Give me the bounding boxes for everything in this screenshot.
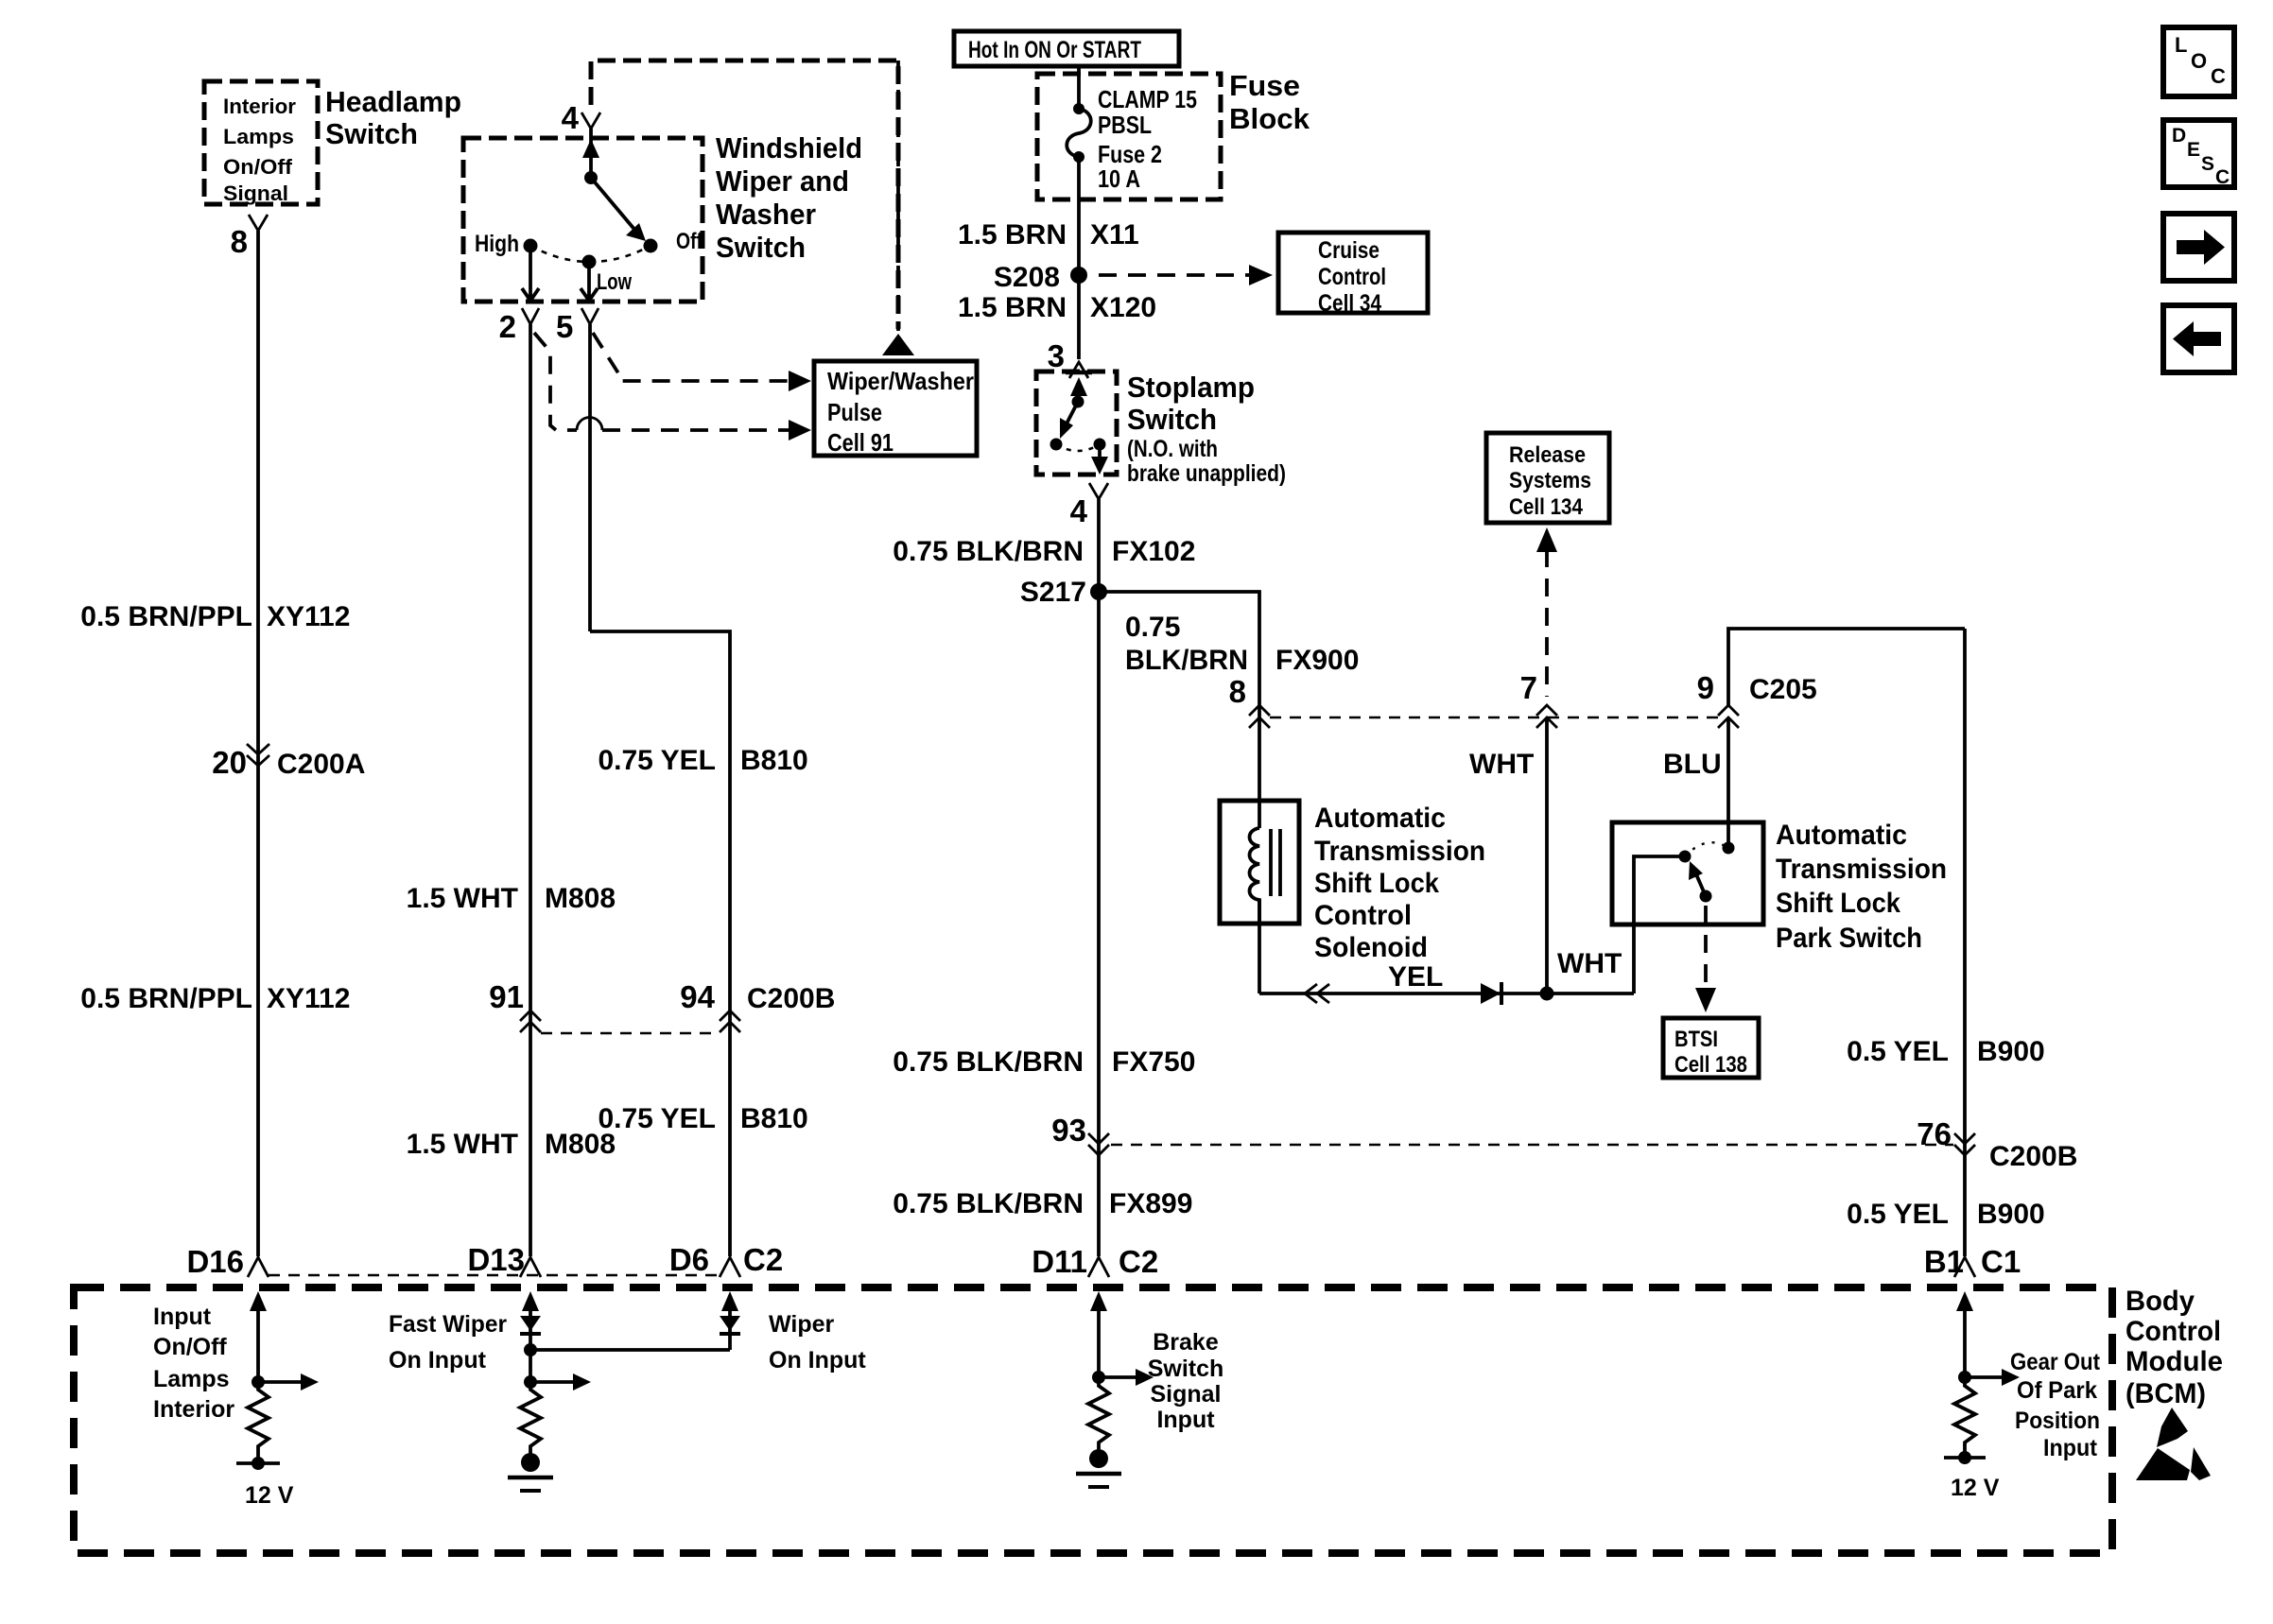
- svg-text:Interior: Interior: [153, 1396, 234, 1423]
- arrowhead to pulse box upper: [789, 371, 811, 391]
- svg-text:Pulse: Pulse: [827, 398, 882, 426]
- svg-text:Wiper: Wiper: [769, 1311, 834, 1338]
- svg-text:1.5 BRN: 1.5 BRN: [958, 292, 1067, 323]
- svg-text:FX750: FX750: [1112, 1046, 1195, 1078]
- svg-text:Shift Lock: Shift Lock: [1776, 888, 1900, 919]
- svg-text:Systems: Systems: [1509, 468, 1591, 493]
- solenoid output wire down from box: [1258, 900, 1261, 993]
- wire from hot feed to fuse: [1077, 65, 1081, 109]
- svg-text:Transmission: Transmission: [1314, 836, 1485, 867]
- svg-text:On Input: On Input: [769, 1347, 866, 1373]
- junction dot wht yel: [1540, 987, 1554, 1001]
- BCM label Brake Switch Signal Input: [1148, 1329, 1224, 1433]
- stoplamp contact right dot: [1094, 439, 1106, 451]
- 12V bar at B1: [1944, 1451, 1986, 1464]
- svg-text:L: L: [2175, 33, 2187, 57]
- svg-text:Park Switch: Park Switch: [1776, 923, 1922, 954]
- park switch dashed travel arc: [1685, 842, 1728, 856]
- svg-text:BTSI: BTSI: [1674, 1027, 1718, 1052]
- arrow down Low wire: [581, 288, 598, 301]
- LOC icon box: [2163, 27, 2234, 96]
- ground symbol at D13: [508, 1453, 553, 1491]
- BTSI cell 138 box: [1663, 1018, 1759, 1078]
- svg-text:Lamps: Lamps: [223, 125, 294, 148]
- svg-text:brake unapplied): brake unapplied): [1127, 460, 1286, 487]
- wire label 0.5 YEL B900 upper: [1847, 1036, 2045, 1067]
- svg-text:Signal: Signal: [223, 181, 288, 205]
- stoplamp input bar: [1066, 371, 1092, 375]
- svg-text:Control: Control: [2126, 1316, 2221, 1347]
- stoplamp arrow up to bar: [1070, 377, 1087, 396]
- pin 5 connector fork: [581, 308, 599, 324]
- svg-text:On Input: On Input: [389, 1347, 487, 1373]
- pin 2 connector fork: [522, 308, 539, 324]
- svg-text:M808: M808: [545, 883, 616, 914]
- svg-text:8: 8: [231, 224, 248, 259]
- wire label 1.5 BRN X120: [958, 292, 1156, 323]
- wire label 0.5 BRN/PPL XY112 (upper): [80, 601, 350, 632]
- resistor at B1: [1954, 1377, 1975, 1456]
- svg-text:D6: D6: [669, 1242, 709, 1277]
- svg-text:(BCM): (BCM): [2126, 1378, 2206, 1409]
- component label Body Control Module BCM: [2126, 1286, 2223, 1409]
- svg-text:0.5 YEL: 0.5 YEL: [1847, 1036, 1949, 1067]
- svg-text:12 V: 12 V: [1951, 1475, 2000, 1501]
- svg-text:Wiper/Washer: Wiper/Washer: [827, 367, 974, 395]
- svg-text:0.5 BRN/PPL: 0.5 BRN/PPL: [80, 601, 252, 632]
- pulse box text Wiper/Washer Pulse Cell 91: [827, 367, 974, 457]
- park switch L wire to WHT drop: [1634, 856, 1685, 993]
- svg-text:Input: Input: [1156, 1407, 1215, 1433]
- dashed ref line 7 to release box: [1545, 549, 1549, 697]
- svg-text:0.75: 0.75: [1125, 612, 1180, 643]
- arrowhead to cruise control: [1249, 265, 1273, 285]
- svg-text:Solenoid: Solenoid: [1314, 932, 1428, 963]
- svg-text:C2: C2: [1119, 1244, 1158, 1279]
- splice S217 dot: [1090, 583, 1107, 600]
- junction dot B1 branch: [1958, 1371, 1971, 1384]
- svg-text:Module: Module: [2126, 1346, 2223, 1377]
- dashed ref from pin 5 to pulse box: [593, 333, 792, 381]
- svg-text:Body: Body: [2126, 1286, 2195, 1317]
- wire B900 column down to BCM B1: [1963, 629, 1967, 1256]
- svg-text:S: S: [2201, 153, 2214, 175]
- component label Fuse Block: [1229, 69, 1310, 135]
- dotted travel arc High-Low-Off: [530, 246, 651, 262]
- yel return wire solenoid to park switch drop: [1259, 992, 1634, 995]
- stoplamp wire to pivot: [1077, 391, 1081, 402]
- ESD sensitive symbol: [2136, 1408, 2211, 1480]
- park switch arm arrowhead: [1689, 861, 1703, 880]
- svg-text:Switch: Switch: [716, 231, 806, 264]
- shift lock control solenoid box: [1220, 801, 1299, 924]
- svg-text:2: 2: [499, 309, 516, 344]
- BCM label Fast Wiper On Input: [389, 1311, 507, 1373]
- svg-text:Signal: Signal: [1150, 1381, 1221, 1408]
- BCM wire at D11: [1097, 1306, 1101, 1377]
- wire label 1.5 WHT M808 lower: [407, 1129, 616, 1160]
- svg-text:O: O: [2191, 49, 2207, 73]
- arrow up on pin 4 wire: [582, 139, 599, 158]
- pin D11 connector fork: [1088, 1257, 1109, 1277]
- svg-text:Cruise: Cruise: [1318, 237, 1379, 264]
- svg-text:94: 94: [680, 979, 715, 1014]
- stoplamp arm arrowhead: [1060, 418, 1073, 439]
- inline connector C205 pin 9: [1697, 670, 1817, 728]
- svg-text:5: 5: [556, 309, 573, 344]
- pin 4 connector fork: [581, 112, 600, 129]
- pin 8 connector fork: [249, 215, 268, 231]
- junction dot D16 branch: [252, 1375, 265, 1389]
- junction dot D13 branch: [524, 1375, 537, 1389]
- svg-text:Fast Wiper: Fast Wiper: [389, 1311, 507, 1338]
- BCM input arrow up at D11: [1090, 1291, 1107, 1311]
- switch arm arrowhead: [626, 223, 646, 241]
- component label Automatic Transmission Shift Lock Control Solenoid: [1314, 803, 1485, 963]
- svg-text:Control: Control: [1318, 264, 1386, 290]
- svg-text:Off: Off: [676, 229, 703, 254]
- BCM input arrow up at D13: [522, 1291, 539, 1311]
- svg-text:Wiper and: Wiper and: [716, 164, 849, 198]
- svg-text:D11: D11: [1032, 1244, 1087, 1279]
- branch arrow right at D13: [530, 1373, 591, 1391]
- BCM wire at B1: [1963, 1306, 1967, 1377]
- svg-text:20: 20: [212, 745, 247, 780]
- svg-text:B1: B1: [1924, 1244, 1964, 1279]
- branch arrow right at B1: [1965, 1369, 2020, 1386]
- diode at D6 input: [720, 1316, 740, 1334]
- svg-text:1.5 WHT: 1.5 WHT: [407, 1129, 518, 1160]
- wire label 1.5 BRN X11: [958, 219, 1139, 251]
- svg-text:Control: Control: [1314, 900, 1412, 931]
- thin dashed connector line D16-D6: [269, 1274, 720, 1276]
- wire label 0.75 BLK/BRN FX900: [1125, 612, 1359, 676]
- branch arrow right at D16: [258, 1373, 319, 1391]
- fuse block dashed box: [1037, 74, 1221, 199]
- svg-text:XY112: XY112: [267, 983, 350, 1014]
- dashed ref line from pulse box up to switch assembly: [896, 60, 900, 331]
- stoplamp pivot dot: [1072, 396, 1084, 408]
- hot in on or start box: [954, 31, 1179, 66]
- ground symbol at D11: [1076, 1449, 1121, 1487]
- svg-text:Switch: Switch: [325, 117, 418, 150]
- wire label 0.75 BLK/BRN FX899: [893, 1188, 1192, 1219]
- release box text Release Systems Cell 134: [1509, 442, 1591, 520]
- svg-text:12 V: 12 V: [245, 1482, 294, 1509]
- svg-text:B900: B900: [1977, 1199, 2045, 1230]
- wiper switch inner dashed box: [463, 138, 703, 302]
- svg-text:0.5 BRN/PPL: 0.5 BRN/PPL: [80, 983, 252, 1014]
- solenoid core bars: [1271, 829, 1280, 896]
- svg-text:Gear Out: Gear Out: [2010, 1349, 2101, 1375]
- resistor at D11: [1088, 1377, 1109, 1452]
- svg-text:Windshield: Windshield: [716, 131, 862, 164]
- contact Off dot: [644, 239, 658, 253]
- wire label 0.75 YEL B810 lower: [598, 1103, 807, 1134]
- wire S217 branch to solenoid column: [1099, 592, 1259, 700]
- svg-text:C: C: [2215, 166, 2230, 188]
- svg-text:0.75 YEL: 0.75 YEL: [598, 745, 716, 776]
- headlamp switch dashed box: [204, 81, 318, 204]
- inline connector C200B pin 94: [680, 979, 835, 1032]
- fuse labels CLAMP 15 PBSL Fuse 2 10 A: [1098, 85, 1197, 193]
- component label Headlamp Switch: [325, 85, 461, 150]
- thin dashed connector line 93 to 76: [1111, 1144, 1953, 1146]
- arrowhead up into release box: [1536, 527, 1557, 552]
- BCM crosslink wire D13 to D6: [530, 1348, 730, 1352]
- BCM input arrow up at D6: [721, 1291, 738, 1311]
- svg-text:Low: Low: [597, 269, 632, 295]
- wire fast wiper (pin 2 to BCM D13): [529, 324, 532, 1256]
- svg-text:Input: Input: [2043, 1435, 2098, 1461]
- contact Low dot: [582, 255, 597, 269]
- svg-text:S217: S217: [1020, 577, 1086, 608]
- svg-text:3: 3: [1048, 338, 1065, 373]
- arrowhead to pulse box lower: [789, 420, 811, 441]
- wire pin 5 jog to B810 column: [590, 631, 730, 1256]
- branch arrow right at D11: [1099, 1369, 1154, 1386]
- inline connector C205 pin 8: [1229, 674, 1270, 728]
- diode at D13 input: [520, 1316, 541, 1334]
- arrowhead down into BTSI box: [1695, 988, 1716, 1012]
- inline connector C200B pin 91: [489, 979, 541, 1032]
- stoplamp arm: [1063, 402, 1078, 431]
- wire pin 9 up and over to B900 column: [1728, 629, 1965, 705]
- svg-text:High: High: [475, 231, 519, 257]
- left arrow icon box: [2163, 305, 2234, 372]
- svg-text:93: 93: [1051, 1113, 1086, 1148]
- headlamp switch box text Interior Lamps On/Off Signal: [223, 95, 296, 205]
- switch pivot dot: [584, 171, 598, 184]
- stoplamp output arrow down: [1091, 457, 1108, 475]
- right arrow icon box: [2163, 214, 2234, 281]
- svg-text:1.5 BRN: 1.5 BRN: [958, 219, 1067, 251]
- svg-text:B810: B810: [740, 1103, 808, 1134]
- svg-text:1.5 WHT: 1.5 WHT: [407, 883, 518, 914]
- wire label 0.5 YEL B900 lower: [1847, 1199, 2045, 1230]
- svg-text:(N.O. with: (N.O. with: [1127, 436, 1218, 462]
- svg-text:D13: D13: [467, 1242, 525, 1277]
- solenoid coil wire into box: [1258, 700, 1261, 828]
- svg-text:Fuse: Fuse: [1229, 69, 1300, 102]
- svg-text:Shift Lock: Shift Lock: [1314, 868, 1439, 899]
- svg-text:B810: B810: [740, 745, 808, 776]
- svg-text:X11: X11: [1090, 219, 1139, 251]
- svg-text:7: 7: [1520, 670, 1537, 705]
- BCM wire at D16: [256, 1306, 260, 1382]
- svg-text:C200B: C200B: [747, 983, 835, 1014]
- wire label 1.5 WHT M808 upper: [407, 883, 616, 914]
- wire label 0.75 BLK/BRN FX750: [893, 1046, 1195, 1078]
- svg-text:Automatic: Automatic: [1776, 820, 1907, 851]
- BCM label Gear Out Of Park Position Input: [2010, 1349, 2101, 1461]
- pin 4 connector fork below stoplamp: [1089, 483, 1108, 499]
- svg-text:9: 9: [1697, 670, 1714, 705]
- 12V bar at D16: [236, 1457, 280, 1470]
- wire label 0.75 YEL B810 upper: [598, 745, 807, 776]
- svg-text:0.75 BLK/BRN: 0.75 BLK/BRN: [893, 1188, 1084, 1219]
- junction dot D13 crosslink: [524, 1343, 537, 1356]
- contact High dot: [524, 239, 538, 253]
- svg-text:0.75 YEL: 0.75 YEL: [598, 1103, 716, 1134]
- wire pin 5 vertical: [588, 324, 592, 631]
- svg-text:PBSL: PBSL: [1098, 111, 1152, 139]
- BCM label Input On/Off Lamps Interior: [153, 1304, 234, 1423]
- svg-text:XY112: XY112: [267, 601, 350, 632]
- svg-text:FX102: FX102: [1112, 536, 1195, 567]
- svg-text:Switch: Switch: [1148, 1356, 1224, 1382]
- thin dashed connector line 91-94: [541, 1032, 720, 1034]
- svg-text:Interior: Interior: [223, 95, 296, 118]
- svg-text:D16: D16: [186, 1244, 244, 1279]
- svg-text:Brake: Brake: [1153, 1329, 1219, 1356]
- junction dot D11 branch: [1092, 1371, 1105, 1384]
- svg-text:91: 91: [489, 979, 524, 1014]
- svg-text:Switch: Switch: [1127, 403, 1217, 436]
- shift lock park switch box: [1612, 822, 1763, 924]
- svg-text:Washer: Washer: [716, 198, 816, 231]
- svg-text:Cell 34: Cell 34: [1318, 290, 1381, 317]
- svg-text:Headlamp: Headlamp: [325, 85, 461, 118]
- park switch left contact dot: [1679, 851, 1692, 863]
- svg-text:4: 4: [1070, 493, 1088, 528]
- wire fuse output to S208 to stoplamp pin 3: [1077, 157, 1081, 359]
- solenoid coil: [1250, 828, 1260, 924]
- svg-text:M808: M808: [545, 1129, 616, 1160]
- body control module BCM dashed box: [74, 1287, 2112, 1553]
- inline connector C205 pin 7: [1520, 670, 1557, 728]
- svg-text:10 A: 10 A: [1098, 164, 1140, 193]
- dashed ref park switch to BTSI: [1704, 906, 1708, 987]
- svg-text:S208: S208: [994, 262, 1060, 293]
- cruise control cell 34 box: [1278, 233, 1428, 313]
- svg-text:4: 4: [562, 100, 580, 135]
- svg-text:Cell 134: Cell 134: [1509, 494, 1584, 520]
- pin D6 connector fork: [720, 1257, 740, 1277]
- stoplamp output wire down: [1098, 450, 1102, 465]
- BCM input arrow up at B1: [1956, 1291, 1973, 1311]
- resistor at D13: [520, 1382, 541, 1456]
- wire pin 4 into switch: [589, 129, 593, 178]
- BCM wire at D6: [728, 1306, 732, 1350]
- svg-text:E: E: [2187, 139, 2200, 161]
- double chevron on yel wire: [1305, 984, 1329, 1003]
- svg-text:Hot In ON Or START: Hot In ON Or START: [968, 37, 1141, 63]
- wire label 0.75 BLK/BRN FX102: [893, 536, 1195, 567]
- splice S208 dot: [1070, 267, 1087, 284]
- wire Low contact down: [587, 268, 591, 300]
- dashed ref continuing to pulse box: [602, 428, 792, 432]
- stoplamp contact left dot: [1050, 439, 1063, 451]
- inline connector C200A pin 20: [212, 744, 365, 780]
- svg-text:FX900: FX900: [1275, 645, 1359, 676]
- inline connector C200B pin 93: [1051, 1113, 1109, 1155]
- diode on yel wire: [1481, 982, 1501, 1005]
- svg-text:Cell 91: Cell 91: [827, 428, 894, 457]
- component label Stoplamp Switch: [1127, 371, 1255, 436]
- wire stoplamp pin 4 to S217 to BCM D11: [1097, 499, 1101, 1256]
- pin 3 connector fork: [1069, 362, 1088, 378]
- svg-text:WHT: WHT: [1557, 948, 1622, 979]
- hop over wire 5: [577, 418, 602, 431]
- svg-text:Lamps: Lamps: [153, 1366, 230, 1392]
- svg-text:0.5 YEL: 0.5 YEL: [1847, 1199, 1949, 1230]
- arrow down High wire: [522, 288, 539, 301]
- svg-text:Cell 138: Cell 138: [1674, 1052, 1747, 1078]
- svg-text:Release: Release: [1509, 442, 1586, 468]
- svg-text:C200B: C200B: [1989, 1141, 2077, 1172]
- park switch right contact dot: [1723, 842, 1735, 855]
- component label Automatic Transmission Shift Lock Park Switch: [1776, 820, 1947, 954]
- BCM label Wiper On Input: [769, 1311, 866, 1373]
- svg-text:BLU: BLU: [1663, 749, 1722, 780]
- svg-text:D: D: [2172, 125, 2186, 147]
- svg-text:Block: Block: [1229, 102, 1310, 135]
- switch arm toward Off: [591, 178, 636, 232]
- svg-text:B900: B900: [1977, 1036, 2045, 1067]
- svg-text:C1: C1: [1981, 1244, 2021, 1279]
- svg-text:76: 76: [1917, 1116, 1952, 1151]
- svg-text:0.75 BLK/BRN: 0.75 BLK/BRN: [893, 1046, 1084, 1078]
- svg-text:C205: C205: [1749, 674, 1817, 705]
- inline connector C200B pin 76: [1917, 1116, 2077, 1172]
- svg-text:0.75 BLK/BRN: 0.75 BLK/BRN: [893, 536, 1084, 567]
- BCM input arrow up at D16: [250, 1291, 267, 1311]
- stoplamp dotted travel arc: [1056, 444, 1100, 451]
- note text N.O. with brake unapplied: [1127, 436, 1286, 487]
- resistor at D16: [248, 1382, 269, 1461]
- svg-text:Transmission: Transmission: [1776, 854, 1947, 885]
- svg-text:C200A: C200A: [277, 749, 365, 780]
- svg-text:WHT: WHT: [1469, 749, 1534, 780]
- wire High contact down: [529, 252, 532, 300]
- svg-text:Automatic: Automatic: [1314, 803, 1446, 834]
- svg-text:FX899: FX899: [1109, 1188, 1192, 1219]
- svg-text:Position: Position: [2015, 1408, 2100, 1434]
- fuse element: [1067, 103, 1091, 163]
- park switch pivot dot: [1700, 890, 1712, 903]
- BTSI box text BTSI Cell 138: [1674, 1027, 1747, 1078]
- wiper switch outer dashed outline: [591, 60, 898, 329]
- park switch arm: [1696, 874, 1706, 896]
- svg-text:On/Off: On/Off: [223, 155, 293, 179]
- svg-text:C2: C2: [743, 1242, 783, 1277]
- dashed ref S208 to cruise control: [1099, 273, 1250, 277]
- pin D16 connector fork: [248, 1257, 269, 1277]
- stoplamp switch dashed box: [1036, 371, 1117, 475]
- wire pin 9 down into park switch: [1726, 717, 1730, 848]
- svg-text:Input: Input: [153, 1304, 212, 1330]
- BCM wire at D13: [529, 1306, 532, 1382]
- svg-text:X120: X120: [1090, 292, 1156, 323]
- svg-text:On/Off: On/Off: [153, 1334, 227, 1360]
- dashed connector line C205 8-7-9: [1270, 717, 1718, 718]
- svg-text:CLAMP 15: CLAMP 15: [1098, 85, 1197, 113]
- component label Windshield Wiper and Washer Switch: [716, 131, 862, 264]
- svg-text:C: C: [2211, 64, 2226, 88]
- wire pin 7 down to junction: [1545, 717, 1549, 993]
- wire label 0.5 BRN/PPL XY112 (lower): [80, 983, 350, 1014]
- dashed ref from pin 2 to pulse box: [534, 333, 577, 430]
- svg-text:Of Park: Of Park: [2017, 1377, 2097, 1404]
- pin B1 connector fork: [1954, 1257, 1975, 1277]
- DESC icon box: [2163, 120, 2234, 188]
- svg-text:YEL: YEL: [1388, 961, 1443, 993]
- release systems cell 134 box: [1486, 433, 1609, 523]
- svg-text:BLK/BRN: BLK/BRN: [1125, 645, 1248, 676]
- pin D13 connector fork: [520, 1257, 541, 1277]
- wiper washer pulse cell 91 box: [814, 361, 977, 456]
